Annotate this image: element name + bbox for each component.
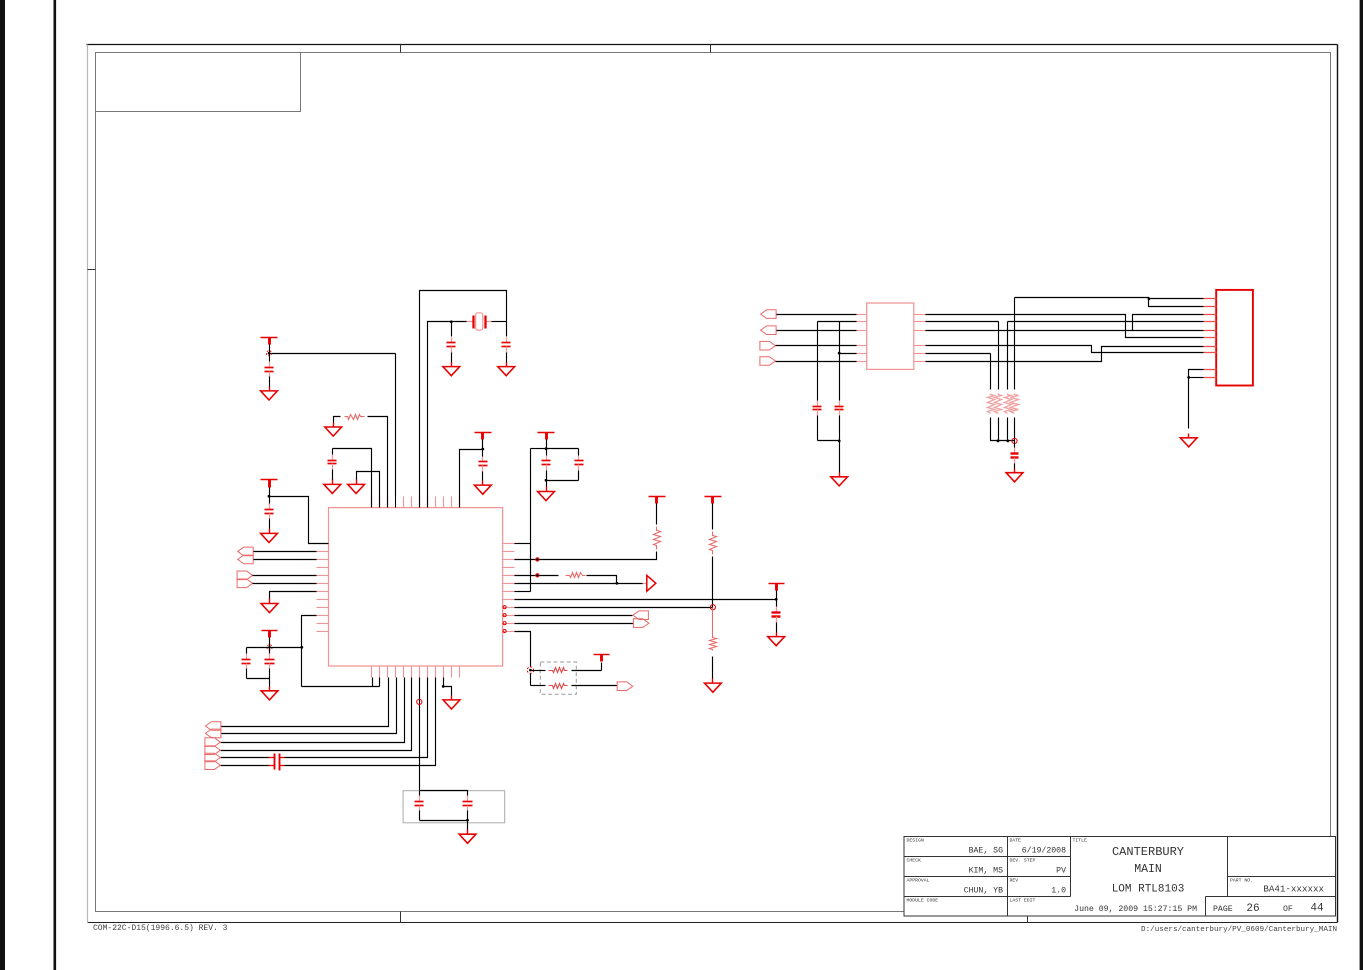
U1 right pin circles (503, 606, 506, 633)
IC U1 RTL8103 body (329, 508, 503, 666)
port OUT-A (237, 571, 253, 580)
wire C4 stem (451, 322, 453, 337)
frame tick bottom 1 (400, 912, 402, 923)
svg-text:COM-22C-D15(1996.6.5) REV. 3: COM-22C-D15(1996.6.5) REV. 3 (93, 924, 228, 933)
port RX2 (760, 357, 776, 366)
footer text left (93, 924, 228, 933)
port BUS4 (205, 746, 221, 755)
wire CT1 (818, 321, 857, 323)
resistor R7 (531, 684, 618, 689)
resistor R6 (531, 668, 602, 673)
svg-text:BAE, SG: BAE, SG (969, 847, 1003, 856)
wire bus9b (221, 765, 269, 767)
svg-text:1.0: 1.0 (1051, 887, 1066, 896)
wire RN1 top (990, 354, 992, 390)
connector J1 body (1216, 290, 1253, 386)
junction J8 (442, 685, 445, 688)
wire RN3 top (1007, 322, 1009, 390)
ground G13 (459, 830, 476, 844)
wire row8 (515, 607, 713, 609)
svg-text:CHUN, YB: CHUN, YB (964, 887, 1003, 896)
wire RN4 bot (1014, 418, 1016, 441)
wire row9 out (515, 615, 633, 617)
transformer T1 pins (857, 315, 926, 362)
svg-text:TITLE: TITLE (1073, 838, 1088, 844)
wire VDD1 node (270, 345, 396, 508)
wire to ground G13 (467, 821, 469, 830)
page vertical rule right (1360, 0, 1363, 970)
capacitor C6 (479, 450, 488, 481)
junction J16 (1006, 440, 1009, 443)
power tap VDD1 (261, 338, 278, 345)
wire net P12 (1015, 298, 1204, 307)
wire row7 long (515, 599, 777, 601)
capacitor C11 series (269, 754, 285, 771)
svg-text:LOM RTL8103: LOM RTL8103 (1112, 884, 1185, 896)
wire net TDN2 (1133, 315, 1204, 331)
wire row0 stub (515, 543, 531, 545)
port OUT-C (647, 575, 656, 591)
frame tick bottom 2 (1027, 917, 1029, 923)
capacitor C9 (242, 648, 251, 679)
junction J2 (268, 495, 271, 498)
ground G8 (474, 481, 491, 495)
capacitor C10 (265, 648, 275, 679)
capacitor C8 (575, 449, 584, 481)
resistor R3 (710, 532, 717, 555)
wire row6 stub (515, 591, 531, 593)
wire C15C16 bottom (818, 440, 840, 442)
svg-text:MAIN: MAIN (1134, 863, 1162, 876)
junction J12 (838, 352, 841, 355)
wire bus right vertical (530, 449, 532, 592)
wire bpin1 (372, 678, 374, 687)
capacitor C1 (265, 354, 274, 387)
power tap VDD6 (649, 497, 666, 504)
wire row5 (253, 583, 317, 585)
wire RN4 top (1014, 298, 1016, 390)
wire bpin10 (444, 678, 452, 696)
junction J9 (466, 819, 469, 822)
port IN-B (238, 555, 254, 564)
wire C9C10 bottom (247, 678, 270, 680)
port TX2 (761, 326, 777, 335)
wire net P1 stub (1149, 298, 1204, 300)
power tap VDD8 (769, 584, 785, 591)
wire R1 right (368, 417, 388, 508)
junction J3 (450, 320, 453, 323)
node marker N8 (1012, 438, 1017, 443)
port OUT-E (617, 682, 633, 691)
svg-text:CHECK: CHECK (907, 858, 922, 864)
ground G11 (261, 687, 278, 700)
ground G16 (831, 473, 848, 486)
wire VDD8 stem (776, 591, 778, 600)
frame tick top 2 (710, 45, 712, 53)
power tap VDD9 (594, 655, 610, 662)
capacitor C4 (447, 338, 456, 363)
capacitor C15 (813, 399, 822, 441)
svg-text:PART NO.: PART NO. (1230, 878, 1253, 884)
component box dashed (403, 791, 505, 823)
ground G6 (443, 363, 460, 376)
wire TX2 (777, 330, 857, 332)
port BUS6 (205, 761, 221, 770)
wire XTAL top (420, 291, 507, 508)
wire VDD5 node (247, 647, 302, 649)
resistor R1 (345, 415, 365, 420)
resistor R4 (710, 608, 717, 651)
junction J10 (616, 582, 619, 585)
port IN-C (633, 611, 649, 620)
svg-text:REV: REV (1010, 878, 1019, 884)
ground G1 (261, 387, 278, 401)
wire bus5 (221, 678, 405, 743)
port BUS2 (205, 729, 221, 738)
power tap VDD7 (705, 497, 722, 504)
capacitor C2 (265, 497, 274, 529)
wire N-AVDD (333, 449, 372, 508)
svg-text:LAST EDIT: LAST EDIT (1010, 898, 1036, 904)
wire RN1 bot (991, 418, 1015, 441)
wire VDD6-R2 (656, 504, 658, 525)
ground G2 (261, 529, 278, 543)
wire net TDCT (926, 321, 999, 323)
ground G18 (1180, 434, 1197, 447)
wire row4 res (515, 575, 559, 577)
ground G17 (1006, 469, 1023, 482)
wire row6-gnd (270, 592, 317, 600)
wire row5 out (515, 583, 647, 585)
capacitor C5 (502, 338, 511, 363)
svg-text:D:/users/canterbury/PV_0609/Ca: D:/users/canterbury/PV_0609/Canterbury_M… (1141, 926, 1337, 934)
wire VDD2 node (270, 488, 329, 544)
svg-text:CANTERBURY: CANTERBURY (1112, 845, 1184, 859)
wire to resbox (530, 674, 532, 686)
resistor network RN3 (1005, 394, 1012, 414)
svg-text:OF: OF (1283, 905, 1293, 914)
svg-text:DEV. STEP: DEV. STEP (1010, 858, 1036, 864)
wire C5 stem (506, 322, 508, 337)
capacitor C13 (463, 796, 473, 821)
wire RX1 (776, 345, 857, 347)
capacitor C17 (1011, 448, 1019, 469)
wire row2 (254, 559, 317, 561)
svg-text:44: 44 (1310, 903, 1324, 915)
svg-text:DATE: DATE (1010, 838, 1022, 844)
ground G5 (325, 423, 342, 437)
wire TX1 (777, 314, 857, 316)
ground G9 (538, 487, 555, 501)
ground G3 (324, 480, 341, 494)
wire R5-corner (587, 576, 617, 584)
transformer T1 body (867, 303, 914, 369)
wire row10 out (515, 623, 634, 625)
port IN-A (238, 547, 254, 556)
wire VDD4 node (531, 440, 579, 449)
ground G7 (498, 363, 515, 376)
wire CT2 down (839, 322, 841, 399)
wire R4-gnd (712, 657, 714, 679)
wire to ground G9 (546, 481, 548, 488)
wire bus bottom-left (302, 686, 380, 688)
svg-text:APPROVAL: APPROVAL (907, 878, 930, 884)
wire to ground G16 (839, 441, 841, 473)
node marker N4 (536, 558, 539, 561)
wire bus9 (285, 678, 436, 766)
junction J6 (545, 479, 548, 482)
port RX1 (760, 341, 776, 350)
junction J13 (838, 440, 841, 443)
wire R1 left (334, 417, 341, 423)
capacitor C12 (415, 791, 424, 821)
wire RN2 top (998, 322, 1000, 390)
ground G12 (443, 696, 460, 710)
svg-text:DESIGN: DESIGN (907, 838, 924, 844)
connector J1 pins (1204, 299, 1217, 378)
wire capbox bottom (420, 820, 468, 822)
svg-text:MODULE CODE: MODULE CODE (907, 898, 939, 904)
junction J5 (545, 447, 548, 450)
title block text (907, 838, 1325, 916)
wire bus8 (285, 678, 428, 758)
wire to C17 (1014, 441, 1016, 448)
junction J4 (481, 448, 484, 451)
frame tick top 1 (400, 45, 402, 53)
port BUS1 (205, 722, 221, 731)
wire net RDCT (926, 353, 991, 355)
wire bpin7 down (419, 678, 421, 791)
junction J11 (775, 598, 778, 601)
ground G15 (768, 633, 785, 646)
power tap VDD5 (262, 631, 278, 638)
wire row1 (254, 551, 317, 553)
ground G10 (261, 599, 278, 613)
junction J17 (1187, 376, 1190, 379)
wire XTAL left (428, 322, 467, 508)
wire RN2 bot (998, 418, 1000, 441)
capacitor C3 (328, 449, 337, 481)
wire RX2 (776, 361, 857, 363)
svg-text:KIM, MS: KIM, MS (969, 867, 1003, 876)
node marker N5 (710, 605, 715, 610)
wire bus3 (221, 678, 389, 727)
power tap VDD4 (538, 433, 555, 440)
wire to ground G11 (269, 679, 271, 687)
capacitor C16 (835, 399, 844, 441)
node marker N2 (267, 645, 272, 650)
svg-text:PAGE: PAGE (1213, 905, 1233, 914)
svg-text:PV: PV (1056, 867, 1066, 876)
resistor network RN2 (995, 394, 1002, 414)
wire net TDP (926, 315, 1204, 338)
wire XTAL right (492, 321, 507, 323)
footer text right (1141, 926, 1337, 934)
capacitor C7 (542, 449, 551, 481)
wire CT2 tap (840, 353, 857, 355)
wire R6-VDD (601, 663, 603, 671)
junction J15 (997, 440, 1000, 443)
capacitor C14 (772, 607, 781, 633)
frame tick left (88, 269, 96, 271)
wire N-GND2 (357, 472, 380, 508)
svg-text:26: 26 (1246, 903, 1259, 915)
resistor R5 (566, 573, 586, 578)
wire bus4 (221, 678, 397, 734)
wire bpin2 (379, 678, 381, 687)
port BUS3 (205, 738, 221, 747)
page left black bar (0, 0, 5, 970)
wire CT1 down (817, 322, 819, 399)
svg-text:6/19/2008: 6/19/2008 (1022, 846, 1066, 856)
wire R3-row8 (712, 557, 714, 608)
port TX1 (761, 310, 777, 319)
ground G14 (705, 679, 722, 693)
wire VDD5 stem (269, 638, 271, 648)
wire row11 down (515, 632, 531, 667)
wire C14 stem (776, 600, 778, 607)
page vertical rule left (54, 0, 57, 970)
node marker N3 (417, 699, 422, 704)
title block grid (904, 837, 1336, 917)
wire VDD7-R3 (712, 504, 714, 530)
port OUT-B (237, 579, 253, 588)
junction J14 (1148, 297, 1151, 300)
wire net P4 (1008, 321, 1204, 323)
IC U1 pins (317, 497, 515, 678)
crystal X1 (467, 313, 492, 330)
wire net RDN (926, 347, 1204, 362)
wire row4 (253, 575, 317, 577)
resistor network RN1 (988, 394, 995, 414)
wire row9 left (302, 616, 317, 687)
wire bus6 (221, 678, 412, 751)
node marker N1 (266, 351, 271, 356)
port OUT-D (633, 619, 649, 628)
wire C8 bottom (547, 480, 579, 482)
svg-text:June 09, 2009 15:27:15 PM: June 09, 2009 15:27:15 PM (1074, 905, 1197, 914)
wire capbox top (420, 791, 468, 796)
wire RN3 bot (1007, 418, 1009, 441)
resistor R2 (654, 527, 661, 550)
wire VDD3 node (460, 440, 483, 508)
junction J7 (300, 646, 303, 649)
svg-text:BA41-xxxxxx: BA41-xxxxxx (1263, 884, 1324, 895)
power tap VDD3 (475, 433, 492, 440)
wire R2-row2 (515, 552, 657, 560)
node marker N6 (536, 574, 539, 577)
node marker N7 (527, 667, 533, 673)
component box dashed 2 (540, 662, 576, 694)
port BUS5 (205, 753, 221, 762)
wire net TDN (926, 330, 1204, 332)
power tap VDD2 (261, 480, 278, 488)
resistor network RN4 (1011, 394, 1019, 414)
ground G4 (348, 480, 365, 494)
revision box top-left (96, 53, 301, 112)
wire net RDP (926, 346, 1204, 353)
wire P9P10 (1189, 370, 1204, 429)
wire bus8b (221, 757, 269, 759)
